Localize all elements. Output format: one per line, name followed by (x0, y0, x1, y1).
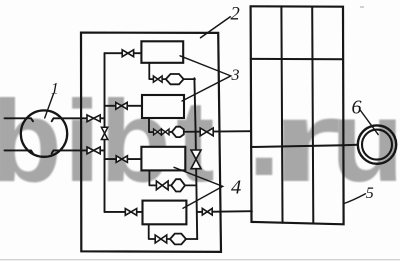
valve B2a (154, 129, 162, 135)
svg-text:4: 4 (231, 176, 241, 198)
unit 5 divider vertical 1 (281, 6, 282, 222)
vessel A4 (143, 201, 187, 225)
valve B3 (156, 181, 168, 190)
vessel A3 (141, 147, 185, 171)
burner ring 6 outer (358, 125, 396, 163)
svg-text:3: 3 (231, 67, 240, 84)
valve V-out-lower (202, 208, 212, 215)
leader line 6 (361, 111, 379, 135)
valve V-collector (vertical) (191, 150, 201, 169)
valve B4 (155, 235, 167, 243)
leader line 5 (344, 194, 366, 204)
unit 5 divider vertical 2 (312, 7, 313, 224)
vessel A1 (141, 41, 183, 63)
valve V-out-upper (200, 128, 213, 136)
valve V3 (116, 156, 127, 163)
leader line 1 (45, 94, 54, 118)
bottom scan rule (0, 259, 400, 261)
wire top pipe right segment (52, 118, 105, 121)
wire branch 1 (105, 52, 142, 54)
wire bypass 3 (149, 170, 195, 185)
wire outlet pipe to burner (251, 145, 358, 147)
leader line 4 (174, 167, 223, 208)
wire bottom pipe left segment (5, 150, 34, 153)
wire top pipe left segment (5, 118, 34, 121)
enclosure box 2 (81, 33, 221, 252)
wire bypass 1 (149, 63, 195, 79)
meter M3 (171, 179, 185, 191)
svg-text:5: 5 (366, 185, 374, 202)
wire bottom pipe right segment (52, 150, 105, 153)
svg-text:1: 1 (51, 80, 59, 97)
valve V4 (125, 209, 136, 216)
wire branch 4 (105, 211, 143, 213)
meter M2 (172, 127, 184, 137)
wire branch 2 (105, 105, 143, 107)
svg-text:2: 2 (231, 4, 240, 24)
vessel A2 (142, 95, 184, 118)
leader line 2 (201, 17, 231, 38)
wire lower outlet (197, 210, 252, 213)
svg-text:6: 6 (352, 97, 362, 119)
meter M1 (166, 74, 184, 84)
meter M4 (170, 234, 186, 245)
valve B1 (153, 76, 162, 82)
wire bypass 4 (149, 224, 198, 239)
speck (361, 6, 364, 8)
valve B2b (162, 129, 170, 135)
gas holder 1 (21, 110, 67, 156)
collector riser (194, 78, 197, 239)
wire bypass 2 / upper outlet (149, 118, 251, 132)
battery unit 5 outline (251, 6, 344, 224)
unit 5 divider horizontal (251, 58, 343, 60)
valve V-in-top (87, 115, 100, 122)
valve V1 (122, 50, 133, 57)
burner ring 6 inner (362, 130, 392, 160)
valve V-in-bottom (87, 147, 100, 154)
manifold riser (104, 53, 106, 212)
wire branch 3 (105, 158, 142, 160)
valve V-manifold (vertical) (101, 127, 107, 139)
valve V2 (116, 102, 127, 109)
leader line 3 (180, 56, 231, 101)
watermark bibt.ru (0, 83, 62, 199)
